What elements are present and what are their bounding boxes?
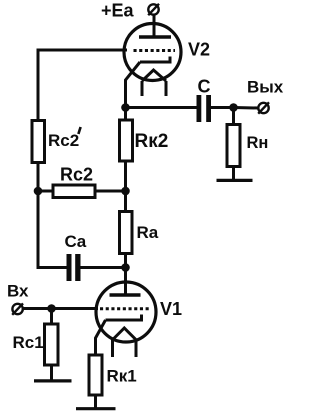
wire +Ea terminal to V2 anode xyxy=(153,15,156,37)
wire Rc2' to junction xyxy=(37,163,40,192)
svg-text:Rc2: Rc2 xyxy=(48,131,79,150)
tube V2 xyxy=(124,24,181,97)
power terminal +Ea xyxy=(148,4,159,15)
resistor Rk1 xyxy=(89,355,102,395)
svg-text:Ca: Ca xyxy=(65,232,87,251)
junction Rc2/Ra xyxy=(121,187,130,196)
wire Rk2 to Rc2 junction xyxy=(124,161,127,191)
wire Ca to anode junction xyxy=(81,266,126,269)
wire junction to Ra xyxy=(124,191,127,212)
svg-text:Ra: Ra xyxy=(137,223,159,242)
wire Rc1 to ground xyxy=(50,365,53,381)
wire junction to V1 anode xyxy=(124,268,127,296)
svg-text:Вых: Вых xyxy=(247,78,284,97)
wire Rk1 to ground xyxy=(94,395,97,409)
junction C/Rn/output xyxy=(229,103,238,112)
capacitor C xyxy=(197,95,212,122)
svg-text:Rн: Rн xyxy=(247,134,269,152)
resistor Rk2 xyxy=(120,120,133,161)
svg-text:Rк1: Rк1 xyxy=(107,367,137,386)
tube V1 xyxy=(96,282,156,357)
wire V2 grid to left column xyxy=(38,50,127,121)
wire Ra to anode junction xyxy=(124,254,127,268)
wire V1 cathode to Rk1 xyxy=(96,320,106,355)
svg-text:+Ea: +Ea xyxy=(101,1,135,21)
resistor Ra xyxy=(120,212,133,254)
output terminal Vyh xyxy=(258,102,269,113)
svg-text:Rк2: Rк2 xyxy=(135,131,169,152)
svg-text:Rc2: Rc2 xyxy=(60,165,93,185)
junction input/Rc1 xyxy=(47,304,56,313)
label Rc2' xyxy=(48,127,81,150)
wire junction to Rc2 left xyxy=(38,190,53,193)
wire capacitor C to output junction xyxy=(211,106,234,109)
ground under Rk1 xyxy=(76,407,116,410)
capacitor Ca xyxy=(67,254,81,281)
wire junction to output terminal xyxy=(234,106,259,110)
svg-text:Rc1: Rc1 xyxy=(13,333,44,352)
svg-text:Вх: Вх xyxy=(7,282,29,301)
wire V2 cathode to junction xyxy=(126,62,141,108)
wire left column down to Ca xyxy=(38,191,67,268)
resistor Rc2' xyxy=(32,121,45,163)
wire output junction to Rn xyxy=(232,108,235,125)
wire junction to Rk2 xyxy=(124,108,127,121)
junction Ca/Ra/V1 anode xyxy=(121,263,130,272)
wire Rc2 right to middle junction xyxy=(95,190,126,193)
wire input to V1 grid xyxy=(23,307,99,310)
resistor Rc2 xyxy=(53,185,95,198)
wire V2 cathode junction to capacitor C xyxy=(126,106,197,109)
resistor Rc1 xyxy=(45,324,59,365)
svg-text:V1: V1 xyxy=(160,299,182,319)
resistor Rn xyxy=(227,125,240,167)
ground under Rc1 xyxy=(34,379,72,382)
ground under Rn xyxy=(217,179,253,182)
svg-text:V2: V2 xyxy=(188,40,210,60)
input terminal Vh xyxy=(12,303,23,314)
junction V2 cathode / Rk2 / C xyxy=(121,103,130,112)
junction Rc2'/Rc2/Ca xyxy=(34,187,43,196)
wire Rn to ground xyxy=(232,167,235,181)
svg-text:C: C xyxy=(198,77,211,97)
wire junction to Rc1 xyxy=(50,309,53,325)
